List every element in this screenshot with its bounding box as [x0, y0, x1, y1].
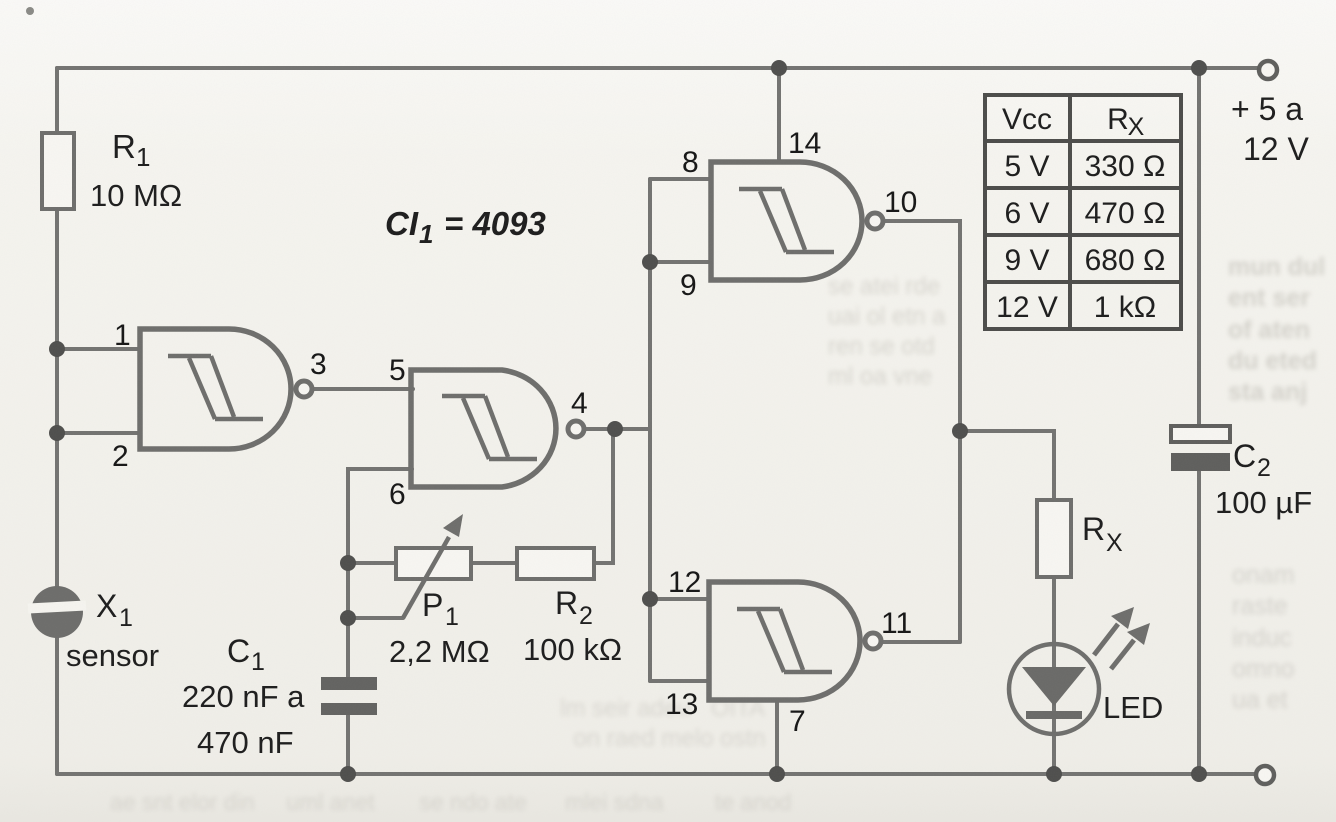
- wire P1 to R2: [471, 561, 517, 565]
- wire pin14 power: [777, 68, 781, 162]
- LED arrow 2: [1111, 640, 1134, 669]
- wire top rail: [57, 66, 1259, 70]
- wire pin4 to bus: [584, 427, 650, 431]
- node LED bottom rail: [1046, 766, 1062, 782]
- scan speck: [26, 7, 34, 15]
- P1 wiper arrow: [403, 537, 449, 618]
- node outputs join: [952, 423, 968, 439]
- bleed-through text mid area: [828, 272, 978, 392]
- wire bottom rail: [57, 772, 1256, 776]
- LED arrow 1: [1094, 624, 1118, 655]
- wire pin7 ground: [775, 700, 779, 774]
- wire left rail lower: [55, 638, 59, 774]
- op-amp gate U1a (NAND 1-2-3): [140, 329, 312, 449]
- wire pin11 output: [882, 640, 960, 644]
- inverting bubble U1a: [296, 381, 312, 397]
- inverting bubble U1d: [865, 633, 881, 649]
- potentiometer P1: [389, 514, 490, 669]
- wire RX to LED to rail: [1052, 577, 1056, 774]
- wire node to P1: [348, 561, 396, 565]
- resistor R2: [517, 548, 622, 667]
- node P1 left: [340, 555, 356, 571]
- inverting bubble U1b: [568, 421, 584, 437]
- wire wiper tap: [348, 616, 403, 620]
- schmitt symbol U1d: [737, 609, 832, 672]
- wire pin10 output: [884, 221, 960, 642]
- sensor X1: [28, 586, 159, 673]
- wire pin6 feedback: [348, 469, 412, 677]
- wire pin8: [650, 177, 711, 181]
- label CI1 = 4093: [385, 205, 546, 249]
- terminal 0V bottom right: [1256, 766, 1274, 784]
- wire left rail middle: [55, 209, 59, 587]
- op-amp gate U1c (NAND 8-9-10): [711, 162, 883, 280]
- inverting bubble U1c: [867, 213, 883, 229]
- wire pin9: [650, 260, 711, 264]
- node pin14 top rail: [771, 60, 787, 76]
- bleed-through text bottom strip: [560, 694, 980, 754]
- op-amp gate U1d (NAND 12-13-11): [709, 582, 881, 700]
- wire input pin1: [57, 347, 140, 351]
- schmitt symbol U1b: [442, 396, 537, 459]
- wire vertical bus gates3-4: [648, 179, 652, 681]
- node C2 top rail: [1191, 60, 1207, 76]
- node pin2 left rail: [49, 425, 65, 441]
- resistor RX: [1037, 500, 1123, 577]
- table Vcc/RX: [985, 95, 1181, 329]
- node pin7 bottom rail: [769, 766, 785, 782]
- terminal +V top right: [1259, 61, 1277, 79]
- capacitor C2: [1171, 426, 1312, 520]
- wire R2 up to pin4 node: [594, 429, 613, 563]
- wire C1 to rail: [346, 715, 350, 774]
- node wiper: [340, 610, 356, 626]
- node C1 bottom rail: [340, 766, 356, 782]
- node pin1 left rail: [49, 341, 65, 357]
- op-amp gate U1b (NAND 5-6-4): [411, 370, 584, 487]
- wire pin3 to pin5: [312, 387, 413, 391]
- node pin9 bus: [642, 254, 658, 270]
- node pin4: [607, 421, 623, 437]
- wire C2 branch lower: [1197, 471, 1201, 774]
- schmitt symbol U1a: [168, 356, 263, 419]
- wire left rail upper: [55, 68, 59, 133]
- bleed-through text right margin: [1228, 252, 1336, 408]
- capacitor C1: [182, 633, 377, 760]
- resistor R1: [42, 128, 182, 213]
- wire pin13: [650, 679, 709, 683]
- LED D1: [1009, 607, 1163, 734]
- schmitt symbol U1c: [739, 189, 834, 252]
- node C2 bottom rail: [1191, 766, 1207, 782]
- wire input pin2: [57, 431, 140, 435]
- supply label +5 a 12V: [1231, 91, 1309, 167]
- wire C2 branch upper: [1197, 68, 1201, 426]
- wire node to RX: [960, 431, 1054, 500]
- node pin12 bus: [642, 591, 658, 607]
- bleed-through text right lower: [1232, 560, 1336, 716]
- wire pin12: [650, 597, 709, 601]
